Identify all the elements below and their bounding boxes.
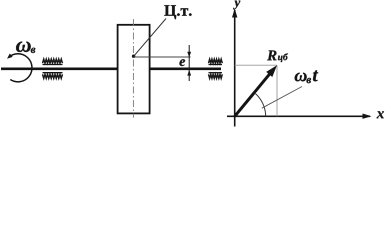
label omega_v (left) — [16, 41, 35, 53]
bearing left: upper hatch — [43, 59, 63, 64]
bearing right: upper hatch — [209, 59, 223, 64]
eccentricity dimension line with arrows — [187, 45, 191, 81]
label e (eccentricity) — [179, 59, 185, 66]
label R_cb — [267, 50, 288, 62]
angle arc omega_v t — [255, 93, 266, 116]
disc rotor rectangle — [118, 25, 150, 114]
projection line vertical (thin) — [276, 65, 278, 116]
label Ts.t. (center of gravity) — [164, 5, 191, 19]
bearing left: lower hatch — [43, 73, 63, 79]
projection line horizontal (thin) — [235, 64, 277, 66]
wire: left shaft segment — [1, 68, 118, 71]
disc centerline (dash-dot) — [132, 19, 134, 118]
bearing right: lower hatch — [209, 73, 223, 79]
label y — [233, 1, 240, 10]
x axis with arrowhead — [227, 114, 372, 119]
center of gravity level line — [134, 56, 191, 58]
label omega_v t — [295, 70, 318, 83]
leader line from label omega_v t to arc — [262, 87, 302, 109]
y axis with arrowhead — [232, 9, 237, 127]
rotation arrow omega_v (curved arc with arrowhead) — [7, 54, 32, 82]
center of gravity dot — [132, 55, 135, 58]
wire: right shaft segment — [149, 68, 221, 71]
label x — [377, 111, 384, 118]
vector R_cb (thick arrow) — [235, 65, 277, 116]
leader line from label Ts.t. to CG — [134, 19, 166, 56]
